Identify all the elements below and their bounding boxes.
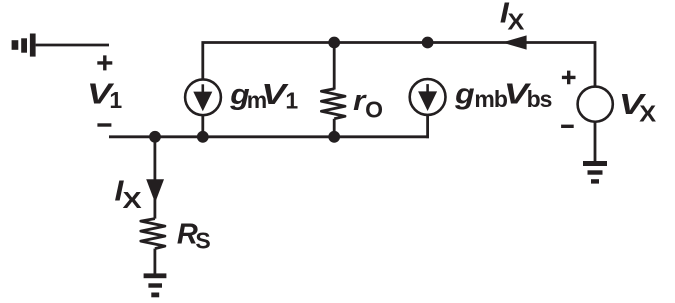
label VX [619,89,656,127]
current Ix arrowhead on top rail (pointing left) [502,35,527,49]
VX minus sign [561,125,574,128]
wire (gmV1 bottom lead) [201,115,204,137]
node dot (bottom rail / gmV1 junction) [197,131,209,143]
wire (gate stub from sideways ground) [36,44,109,47]
voltage source VX [578,87,613,122]
svg-text:bs: bs [527,86,552,112]
node dot (top rail / rO junction) [328,37,340,49]
VX plus sign [562,71,576,85]
wire (Rs to ground lead) [153,249,156,274]
svg-text:1: 1 [285,87,298,113]
svg-text:X: X [123,187,143,214]
node dot (bottom rail / rO junction) [328,131,340,143]
ground (sideways, gate terminal top-left) [12,34,36,57]
label gmV1 [229,78,298,113]
node V1 label [87,78,123,113]
node dot (top rail / gmbVbs junction) [422,37,434,49]
svg-text:O: O [365,97,383,123]
current source G2 (gmbVbs) [410,79,446,115]
current Ix arrowhead on Rs branch (pointing down) [146,179,164,203]
wire (top rail from gmV1 to Vx) [203,43,595,88]
node V1 minus sign [97,123,111,126]
wire (VX bottom lead) [594,121,597,161]
node V1 plus sign [97,55,112,70]
svg-text:S: S [195,228,210,254]
resistor RS [141,219,165,249]
label gmbVbs [454,78,552,112]
svg-text:1: 1 [109,87,122,113]
wire (gmbVbs bottom lead) [426,114,429,138]
resistor rO [321,43,345,137]
ground (below VX) [583,161,607,184]
label RS [177,218,211,253]
svg-text:g: g [454,78,475,110]
ground (below RS) [144,273,167,297]
wire (Rs branch down from source node) [153,137,156,219]
svg-text:X: X [639,101,656,127]
svg-text:X: X [508,10,525,36]
current Ix label (bottom) [115,175,143,213]
current source G1 (gmV1) [185,79,221,115]
current Ix label (top) [500,0,524,35]
label rO [353,85,383,122]
wire (bottom rail / source node) [109,135,429,138]
node dot (bottom rail / Rs branch junction) [149,131,161,143]
